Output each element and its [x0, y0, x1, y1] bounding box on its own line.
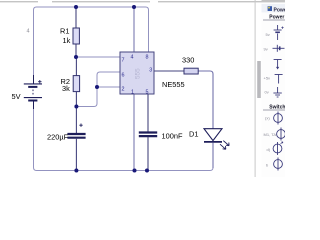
node B dot R2/C1 [74, 105, 78, 109]
wire pin 2 to junction C [97, 86, 120, 88]
node A dot R1/R2/pin7 [74, 55, 78, 59]
wire pin 6 to junction C [97, 72, 120, 87]
wire pin 4 riser from top rail [133, 7, 135, 52]
wire pin 5 to capacitor C2 [147, 94, 149, 132]
svg-text:0v: 0v [265, 90, 269, 95]
node C dot pin2/pin6 [95, 85, 99, 89]
op IC U1 NE555 [120, 52, 154, 96]
svg-text:9v: 9v [264, 47, 268, 52]
wire pin 7 to node A [76, 56, 120, 58]
svg-text:M1, TA: M1, TA [264, 132, 277, 137]
svg-text:D1: D1 [189, 130, 198, 139]
svg-text:Power S: Power S [274, 7, 286, 13]
svg-text:5v: 5v [266, 32, 270, 37]
wire capacitor C2 to ground rail [147, 137, 149, 170]
node dot top rail R1 [74, 5, 78, 9]
svg-text:+5v: +5v [264, 76, 271, 81]
svg-text:5V: 5V [12, 92, 21, 101]
svg-text:330: 330 [182, 56, 194, 65]
panel item ground icon [265, 87, 282, 97]
wire node B to capacitor C1 [75, 107, 77, 134]
wire pin 3 to resistor R3 [154, 70, 184, 72]
svg-text:1: 1 [131, 90, 134, 96]
svg-text:4: 4 [27, 29, 30, 35]
diode D1 LED [204, 129, 229, 150]
node dot top rail pin4 [132, 5, 136, 9]
panel item cell icon [264, 45, 285, 52]
panel section header 2 [263, 104, 291, 110]
node dot ground C1 [74, 169, 78, 173]
svg-text:3k: 3k [62, 84, 70, 93]
svg-text:4: 4 [131, 55, 134, 61]
wire VCC top rail from battery up and across to pin 8 [34, 7, 149, 83]
svg-text:Power Su: Power Su [269, 14, 285, 20]
panel item power rail icon [274, 60, 282, 70]
node dot ground pin1 [133, 169, 137, 173]
wire capacitor C1 to ground rail [75, 139, 77, 171]
panel section header Power Supplies [263, 14, 292, 20]
svg-text:100nF: 100nF [162, 132, 183, 141]
svg-text:1k: 1k [63, 36, 71, 45]
resistor R3 330 [184, 68, 198, 74]
wire R1 column: rail to R1, R1 to node A [75, 7, 77, 57]
wire junction C down to node B [76, 87, 97, 107]
svg-text:555: 555 [135, 68, 142, 79]
panel scrollbar thumb [257, 61, 261, 98]
svg-text:220µF: 220µF [47, 133, 69, 142]
resistor R1 [73, 28, 79, 44]
svg-text:5: 5 [146, 90, 149, 96]
svg-text:8: 8 [146, 55, 149, 61]
panel item lamp icon [265, 112, 282, 125]
battery B1 [24, 75, 42, 109]
wire resistor R3 to LED anode [198, 71, 213, 129]
panel item bulb icon [266, 158, 282, 171]
panel item motor icon [264, 128, 286, 141]
svg-text:NE555: NE555 [162, 80, 185, 89]
capacitor C1 220uF [67, 124, 85, 138]
svg-text:(x): (x) [265, 116, 270, 121]
panel item +V rail icon [264, 75, 283, 84]
resistor R2 [73, 76, 79, 92]
panel item LED icon [267, 142, 283, 155]
wire pin 1 to ground rail [133, 94, 135, 171]
svg-text:6: 6 [122, 73, 125, 79]
svg-text:Switches: Switches [269, 104, 285, 110]
capacitor C2 100nF [139, 133, 157, 137]
svg-text:3: 3 [149, 68, 152, 74]
wire ground rail from battery bottom across to LED [34, 101, 214, 171]
panel divider line [255, 0, 256, 177]
svg-text:7: 7 [122, 58, 125, 64]
wire R2 column: node A to R2, R2 to node B [75, 57, 77, 107]
svg-text:R1: R1 [60, 27, 69, 36]
panel title bar [262, 4, 294, 13]
svg-text:2: 2 [122, 87, 125, 93]
panel item battery icon [266, 25, 284, 40]
panel background [262, 0, 286, 177]
node dot ground C2 [145, 169, 149, 173]
window chrome top line [0, 1, 285, 3]
